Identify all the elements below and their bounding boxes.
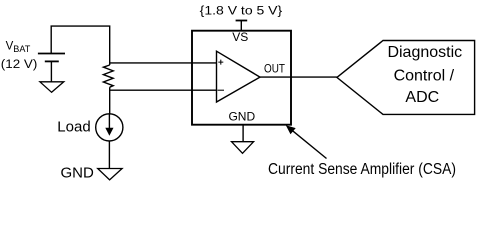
callout arrow line	[293, 131, 327, 159]
svg-text:OUT: OUT	[264, 62, 286, 76]
current source arrow shaft	[108, 115, 110, 131]
ground: CSA GND	[232, 142, 254, 154]
wire: GND pin	[242, 125, 244, 142]
svg-text:Load: Load	[57, 118, 90, 135]
svg-text:GND: GND	[61, 164, 95, 181]
svg-text:VBAT: VBAT	[6, 41, 31, 55]
svg-text:VS: VS	[232, 30, 248, 44]
wire: load to ground	[108, 141, 110, 169]
svg-text:GND: GND	[228, 109, 255, 123]
svg-text:(12 V): (12 V)	[1, 57, 38, 71]
wire: battery positive up and over to shunt bus	[51, 26, 109, 65]
wire: shunt top to amplifier + input	[110, 62, 217, 64]
svg-text:Control /: Control /	[394, 67, 455, 84]
svg-text:Current Sense Amplifier (CSA): Current Sense Amplifier (CSA)	[268, 161, 456, 178]
op-amp A1	[217, 51, 261, 102]
svg-text:Diagnostic: Diagnostic	[387, 44, 462, 61]
ground: load GND	[98, 169, 122, 180]
wire: OUT to ADC block	[260, 76, 337, 78]
VS supply terminal bar	[236, 20, 248, 22]
op-amp + input mark	[218, 60, 223, 65]
wire: battery negative to ground	[50, 61, 52, 81]
CSA device box U1	[192, 31, 291, 125]
wire: shunt bottom to amplifier - input	[110, 89, 217, 91]
svg-text:ADC: ADC	[405, 89, 439, 106]
wire: VS pin	[240, 21, 242, 31]
current source: load circle	[96, 114, 123, 141]
callout arrowhead	[286, 125, 296, 134]
block: Diagnostic Control / ADC	[337, 41, 475, 115]
ground: battery	[40, 82, 64, 93]
battery V1 top plate	[38, 53, 65, 55]
battery V1 bottom plate	[45, 60, 59, 62]
current source arrowhead	[105, 128, 113, 136]
op-amp - input mark	[218, 89, 225, 91]
resistor Rshunt	[103, 65, 113, 87]
svg-text:{1.8 V to 5 V}: {1.8 V to 5 V}	[200, 5, 283, 17]
wire: shunt bottom to load current source	[109, 87, 111, 114]
